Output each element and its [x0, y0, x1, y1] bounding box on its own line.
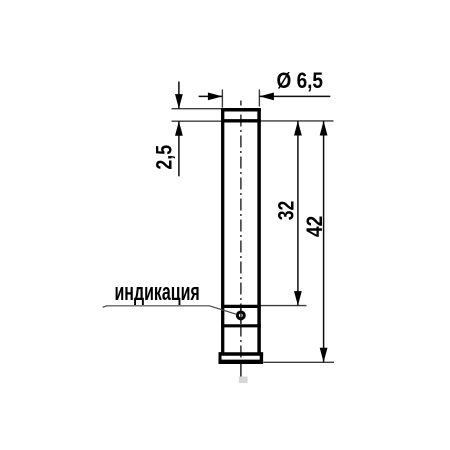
svg-text:Ø 6,5: Ø 6,5 [277, 68, 324, 93]
svg-text:индикация: индикация [115, 279, 200, 306]
svg-text:2,5: 2,5 [151, 145, 176, 170]
svg-text:32: 32 [274, 201, 299, 221]
svg-text:42: 42 [302, 216, 327, 237]
